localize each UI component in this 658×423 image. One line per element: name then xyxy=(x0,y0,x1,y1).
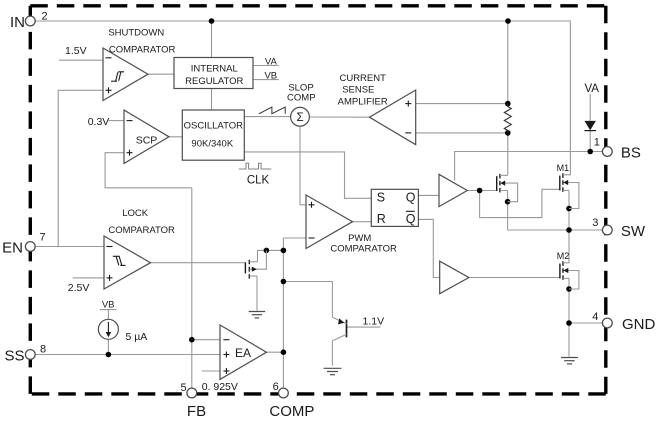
wire 0.3V to SCP - input xyxy=(108,120,124,122)
wire shutdown comparator output to regulator xyxy=(148,73,174,75)
op-amp PWM comparator xyxy=(306,195,353,249)
svg-text:GND: GND xyxy=(622,316,656,333)
block internal regulator xyxy=(174,58,253,89)
svg-text:Q: Q xyxy=(406,191,416,205)
wire latch Qbar to low-side buffer xyxy=(418,219,439,277)
diode bootstrap with VA label xyxy=(584,83,599,131)
svg-text:6: 6 xyxy=(273,381,279,393)
block SR latch xyxy=(371,189,418,226)
wire lock FET source to ground xyxy=(256,276,258,311)
pin 3 SW xyxy=(592,217,646,240)
wire COMP net to PWM comparator - input xyxy=(283,237,306,239)
svg-text:3: 3 xyxy=(592,217,598,229)
junction bootstrap diode to BS net xyxy=(587,149,593,155)
junction driver FET source body tie xyxy=(505,199,511,205)
buffer low-side driver xyxy=(440,261,469,294)
junction COMP net to clamp branch xyxy=(281,279,287,285)
svg-text:S: S xyxy=(377,191,385,205)
wire clamp collector to ground xyxy=(331,341,333,366)
dashed IC boundary bottom xyxy=(30,392,606,395)
svg-text:CLK: CLK xyxy=(247,174,270,186)
pin 4 GND xyxy=(592,311,655,333)
wire EA output to COMP net xyxy=(267,351,284,353)
svg-text:IN: IN xyxy=(10,14,25,31)
svg-text:LOCK: LOCK xyxy=(122,208,149,219)
svg-text:7: 7 xyxy=(40,232,46,244)
wire GND net to GND pin xyxy=(569,322,603,324)
svg-text:EN: EN xyxy=(2,239,23,256)
wire IN rail from pin 2 across top, down to M1 drain xyxy=(35,21,571,175)
wire clamp base to 1.1V xyxy=(347,326,381,328)
op-amp SCP comparator xyxy=(124,110,169,164)
op-amp lock comparator xyxy=(104,236,151,289)
summer circle sigma xyxy=(291,107,310,126)
svg-text:Q: Q xyxy=(406,212,416,226)
junction M2 body tie xyxy=(566,286,572,292)
svg-text:0.3V: 0.3V xyxy=(88,116,110,128)
ground below clamp PNP xyxy=(324,368,342,374)
svg-text:5: 5 xyxy=(180,382,186,394)
svg-text:SCP: SCP xyxy=(136,134,158,146)
junction GND net xyxy=(566,320,572,326)
wire summer down to PWM comparator + input xyxy=(300,126,306,205)
wire EN pin to lock comparator - input xyxy=(35,246,104,248)
svg-text:8: 8 xyxy=(40,343,46,355)
wire SW net to SW pin xyxy=(508,229,603,231)
wire buffer output to driver FET gate xyxy=(467,190,496,192)
svg-text:R: R xyxy=(377,212,386,226)
svg-text:VA: VA xyxy=(265,56,278,67)
wire current source to SS net xyxy=(107,339,109,354)
pin 2 IN xyxy=(10,11,48,32)
wire M2 source to GND pin xyxy=(568,278,570,357)
wire regulator to oscillator xyxy=(211,89,213,111)
ground below lock FET xyxy=(249,312,266,318)
wire PWM comparator output to latch R input xyxy=(353,221,372,223)
transistor bootstrap driver FET xyxy=(497,174,518,202)
svg-text:PWM: PWM xyxy=(348,233,371,244)
svg-text:AMPLIFIER: AMPLIFIER xyxy=(338,97,388,108)
junction current source on SS net xyxy=(106,352,112,358)
svg-text:4: 4 xyxy=(592,311,598,323)
transistor M1 xyxy=(557,163,579,208)
wire lock FET drain to COMP net xyxy=(258,250,284,261)
svg-text:FB: FB xyxy=(187,403,206,420)
junction FB net to EA - input xyxy=(189,337,195,343)
wire low-side buffer output to M2 gate xyxy=(469,277,560,279)
wire M1 source to M2 drain on SW net xyxy=(568,190,570,263)
wire 0.925V to EA lower + input xyxy=(202,370,220,372)
svg-text:M1: M1 xyxy=(557,163,570,173)
resistor sense R xyxy=(504,104,511,133)
pin 8 SS xyxy=(4,343,46,364)
buffer high-side driver xyxy=(439,174,467,206)
wire sense net resistor to driver FET drain xyxy=(507,133,509,176)
junction IN rail to sense resistor xyxy=(505,18,511,24)
junction lock FET drain to COMP net xyxy=(281,248,287,254)
junction sense resistor top xyxy=(505,101,511,107)
wire shutdown comparator + input to EN net xyxy=(58,90,103,246)
dashed IC boundary left xyxy=(29,6,32,394)
wire regulator feed from rail xyxy=(211,21,213,58)
transistor M2 xyxy=(557,251,579,289)
transistor Q1 clamp PNP xyxy=(332,317,346,341)
junction lock FET drain body tie xyxy=(264,248,270,254)
current source 5uA xyxy=(98,299,147,343)
svg-text:SHUTDOWN: SHUTDOWN xyxy=(108,27,164,38)
svg-text:REGULATOR: REGULATOR xyxy=(185,76,243,87)
svg-text:COMPARATOR: COMPARATOR xyxy=(330,243,397,254)
wire COMP net vertical to COMP pin xyxy=(282,238,284,388)
svg-text:SS: SS xyxy=(4,347,24,364)
wire SS pin to EA + input xyxy=(35,354,220,356)
svg-text:90K/340K: 90K/340K xyxy=(191,139,233,150)
wire CSA - input to sense resistor bottom xyxy=(416,132,508,134)
junction M1 body tie xyxy=(566,206,572,212)
pin 7 EN xyxy=(2,232,45,257)
junction EA output to COMP net xyxy=(281,349,287,355)
wire oscillator ramp to summer xyxy=(244,116,290,118)
wire driver FET source to SW net xyxy=(507,191,509,231)
wire latch Q to high-side buffer xyxy=(418,194,439,196)
wire summer to current sense amplifier output xyxy=(309,116,369,118)
wire sense net from rail to resistor xyxy=(507,21,509,104)
wire COMP net to clamp transistor emitter xyxy=(283,282,332,318)
svg-text:5 µA: 5 µA xyxy=(126,331,148,343)
wire CLK from oscillator to latch S input xyxy=(244,152,371,198)
wire 2.5V to lock comparator + input xyxy=(73,277,104,279)
pin 5 FB xyxy=(180,382,206,420)
wire BS pin rail to buffer supply xyxy=(455,152,603,181)
wire lock comparator output to lock FET gate xyxy=(151,262,246,264)
CLK pulse waveform xyxy=(239,163,271,169)
wire SCP + input to FB net xyxy=(105,153,192,188)
wire bootstrap diode to BS net xyxy=(589,131,591,152)
op-amp current sense amplifier xyxy=(370,90,416,145)
svg-text:COMP: COMP xyxy=(287,93,316,104)
pin 6 COMP xyxy=(269,381,314,420)
svg-text:COMP: COMP xyxy=(269,403,314,420)
wire FB net vertical to FB pin xyxy=(191,188,193,389)
svg-text:VA: VA xyxy=(584,83,599,95)
pin 1 BS xyxy=(594,137,641,162)
wire FB net to EA - input xyxy=(192,339,220,341)
wire SCP output to oscillator xyxy=(169,136,182,138)
svg-text:1: 1 xyxy=(594,137,600,149)
svg-text:VB: VB xyxy=(264,70,277,81)
op-amp shutdown comparator xyxy=(103,48,148,101)
junction buffer output gate drive xyxy=(477,188,483,194)
wire VB source stem to SS net xyxy=(107,310,109,320)
svg-text:BS: BS xyxy=(621,144,641,161)
svg-text:COMPARATOR: COMPARATOR xyxy=(109,44,176,55)
svg-text:COMPARATOR: COMPARATOR xyxy=(108,225,175,236)
svg-text:VB: VB xyxy=(102,299,115,310)
svg-text:Σ: Σ xyxy=(296,112,303,124)
ground below M2 xyxy=(561,358,578,364)
svg-text:CURRENT: CURRENT xyxy=(339,73,386,84)
op-amp EA error amplifier xyxy=(220,325,267,379)
svg-text:SW: SW xyxy=(621,223,646,240)
wire 1.5V to shutdown comparator - input xyxy=(59,59,103,61)
svg-text:OSCILLATOR: OSCILLATOR xyxy=(184,120,243,131)
svg-text:SENSE: SENSE xyxy=(342,85,374,96)
dashed IC boundary top xyxy=(30,4,606,7)
svg-text:2: 2 xyxy=(42,11,48,23)
transistor lock FET xyxy=(245,250,266,278)
dashed IC boundary right xyxy=(604,6,607,394)
sawtooth slope waveform xyxy=(259,107,285,114)
block oscillator 90K/340K xyxy=(182,110,244,160)
junction SW net xyxy=(566,227,572,233)
wire VA to bootstrap diode xyxy=(589,94,591,121)
svg-text:1.1V: 1.1V xyxy=(362,315,384,327)
svg-text:EA: EA xyxy=(235,346,251,360)
svg-text:1.5V: 1.5V xyxy=(65,45,87,57)
wire VB output stub xyxy=(253,79,279,81)
wire CSA + input to sense resistor top xyxy=(416,103,508,105)
wire VA output stub xyxy=(253,65,279,67)
svg-text:INTERNAL: INTERNAL xyxy=(191,63,238,74)
svg-text:0. 925V: 0. 925V xyxy=(202,381,238,393)
svg-text:M2: M2 xyxy=(557,251,570,261)
junction IN rail to regulator xyxy=(209,18,215,24)
wire gate drive to M1 gate xyxy=(480,189,560,217)
junction sense resistor bottom xyxy=(505,130,511,136)
svg-text:2.5V: 2.5V xyxy=(68,282,90,294)
